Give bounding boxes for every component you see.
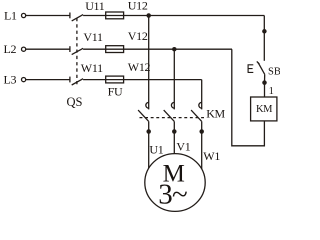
contactor KM contact 2 blade	[164, 110, 175, 121]
svg-text:L2: L2	[4, 42, 17, 56]
switch QS pole 1 blade	[72, 15, 83, 21]
junction dot motor lead V1	[172, 129, 177, 134]
svg-text:QS: QS	[67, 95, 83, 109]
switch QS pole 1 contact tick	[69, 13, 71, 19]
wire row2 fuse to right corner	[124, 48, 232, 50]
switch QS pole 2 blade	[72, 48, 83, 54]
wire row3 fuse to corner	[124, 79, 202, 81]
button SB blade	[258, 63, 265, 75]
wire row1 right branch down to SB	[263, 16, 265, 61]
motor M circle	[145, 154, 205, 212]
fuse FU1	[106, 15, 124, 17]
terminal L2 circle	[22, 47, 26, 51]
wire QS1 to fuse 1	[83, 15, 106, 17]
switch QS pole 3 blade	[72, 79, 83, 85]
contactor KM contact 3 blade	[191, 110, 202, 121]
junction dot row2/column B	[172, 47, 177, 52]
contactor KM contact 1 lower stub	[148, 121, 150, 131]
svg-text:1: 1	[269, 86, 274, 97]
svg-text:U12: U12	[128, 0, 148, 13]
wire SB to KM coil	[264, 83, 266, 97]
junction dot on right branch	[262, 29, 267, 34]
wire column A down to KM contact 1	[148, 16, 150, 110]
svg-text:W11: W11	[81, 61, 103, 75]
svg-text:KM: KM	[206, 106, 225, 120]
wire column C down to KM contact 3	[201, 80, 203, 110]
contactor KM contact 3 lower stub	[201, 121, 203, 131]
contactor KM contact 2 lower stub	[173, 121, 175, 131]
svg-text:KM: KM	[256, 104, 273, 115]
wire L2 to QS	[26, 48, 70, 50]
contactor coil KM box	[251, 97, 277, 121]
fuse FU3	[106, 79, 124, 81]
svg-text:V11: V11	[83, 30, 103, 44]
contactor KM contact 2 arc	[171, 102, 174, 108]
svg-text:L3: L3	[4, 72, 17, 86]
junction dot motor lead U1	[146, 129, 151, 134]
wire motor lead U1	[148, 132, 150, 169]
contactor KM contact 1 arc	[146, 102, 149, 108]
switch QS pole 3 contact tick	[69, 77, 71, 83]
svg-text:3~: 3~	[158, 178, 187, 210]
wire QS2 to fuse 2	[83, 48, 106, 50]
junction dot SB bottom terminal	[262, 80, 267, 85]
terminal L3 circle	[22, 78, 26, 82]
wire L3 to QS	[26, 79, 70, 81]
contactor KM coupling dashed line	[140, 117, 205, 119]
contactor KM contact 1 blade	[138, 110, 149, 121]
fuse FU2	[106, 48, 124, 50]
button SB blade tick	[257, 61, 260, 64]
wire L1 to QS	[26, 15, 70, 17]
terminal L1 circle	[22, 13, 26, 17]
svg-text:W12: W12	[128, 60, 151, 74]
wire QS3 to fuse 3	[83, 79, 106, 81]
svg-text:U1: U1	[149, 143, 163, 157]
junction dot row1/column A	[146, 13, 151, 18]
wire KM coil bottom to row2 branch	[232, 49, 265, 146]
wire column B down to KM contact 2	[173, 49, 175, 109]
svg-text:L1: L1	[4, 9, 17, 23]
svg-text:FU: FU	[108, 84, 123, 98]
wire row1 fuse to right corner	[124, 15, 265, 17]
wire motor lead V1	[173, 132, 175, 154]
contactor KM contact 3 arc	[199, 102, 202, 108]
button SB blade lower link	[264, 74, 266, 82]
svg-text:V1: V1	[176, 140, 190, 154]
wire motor lead W1	[201, 132, 203, 170]
svg-text:SB: SB	[268, 66, 280, 77]
switch QS pole 2 contact tick	[69, 46, 71, 52]
switch QS coupling dashed line	[76, 18, 78, 87]
button SB actuator E	[248, 64, 253, 73]
svg-text:W1: W1	[203, 149, 220, 163]
junction dot motor lead W1	[199, 129, 204, 134]
svg-text:V12: V12	[128, 29, 148, 43]
svg-text:U11: U11	[85, 0, 105, 13]
